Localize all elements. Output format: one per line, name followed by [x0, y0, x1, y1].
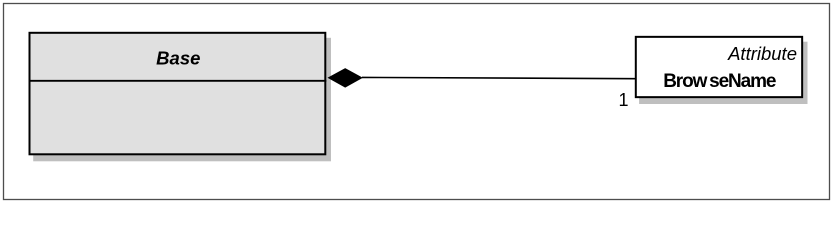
svg-text:Attribute: Attribute [727, 43, 797, 64]
svg-text:BrowseName: BrowseName [663, 71, 776, 92]
wire [362, 77, 636, 78]
class box BrowseName [636, 37, 808, 104]
svg-text:Base: Base [156, 48, 200, 69]
composition diamond [328, 68, 363, 88]
svg-text:1: 1 [618, 90, 628, 110]
class box Base [29, 33, 332, 162]
